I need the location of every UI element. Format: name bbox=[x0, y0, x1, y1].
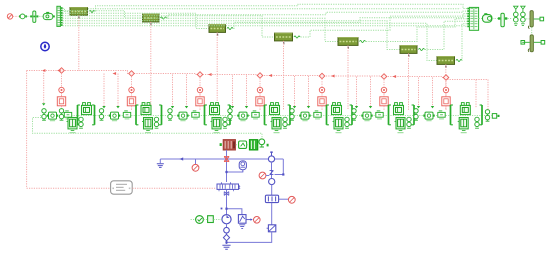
exhaust valve V5 bbox=[318, 97, 326, 106]
wire: crank to accessory drive bbox=[33, 118, 263, 139]
wire: runner line L1 outlet bbox=[96, 4, 470, 11]
shaft gauge G6a bbox=[352, 109, 356, 121]
wire: bus drop bbox=[186, 75, 188, 107]
wire: valve V5 to cylinder bbox=[321, 106, 323, 110]
rotary coupling R1 bbox=[20, 14, 25, 19]
wire: control line left bbox=[27, 187, 111, 189]
pressure gauge PT3 bbox=[288, 196, 295, 203]
tank T1 bbox=[157, 164, 164, 168]
wire: valve V4 to cylinder bbox=[259, 106, 261, 110]
wire: control line right bbox=[132, 187, 216, 189]
wire: left return riser bbox=[26, 71, 28, 189]
bracket cylinder 4 left bbox=[265, 105, 267, 125]
wire: valve V6 to cylinder bbox=[383, 106, 385, 110]
accumulator AC1 bbox=[239, 161, 246, 172]
crank throw E2b bbox=[123, 111, 130, 120]
pipe TL5 bbox=[338, 38, 358, 46]
cylinder head block 4 bbox=[270, 103, 280, 115]
wire: pipe TL2 thermal riser bbox=[150, 22, 152, 110]
cylinder port gauge G1 bbox=[59, 109, 63, 121]
tank T2 bbox=[239, 225, 245, 229]
pipe TL5 index label bbox=[348, 47, 349, 49]
crank throw E5a bbox=[299, 112, 310, 121]
con-rod bearings cylinder 7 bbox=[475, 117, 479, 128]
wire: bus drop bbox=[103, 74, 105, 107]
wire: pipe TL1 thermal riser bbox=[78, 15, 80, 71]
directional valve DV1 bbox=[217, 182, 240, 191]
cylinder head block 5 bbox=[332, 103, 342, 115]
wave symbol W6 bbox=[419, 48, 425, 50]
pump speed sensor green bbox=[196, 216, 204, 224]
wire: assembly drop 1 bbox=[61, 73, 63, 96]
wave symbol W5 bbox=[360, 40, 366, 42]
cylinder head block 1 bbox=[82, 103, 92, 115]
intake plenum manifold U1 bbox=[57, 6, 61, 26]
wire: manifold to turbine bbox=[479, 18, 482, 20]
wire: runner line L3 inlet bbox=[63, 13, 209, 28]
shaft gauge G3a bbox=[168, 109, 172, 121]
prime mover M1 bbox=[7, 14, 12, 19]
wire: pipe TL4 thermal riser bbox=[283, 41, 285, 110]
supply circle element CE2 bbox=[269, 179, 275, 185]
header arrow bbox=[179, 157, 183, 160]
wire: bus tail riser B bbox=[487, 80, 489, 111]
crank throw E3a bbox=[177, 112, 188, 121]
signal function box FB1 bbox=[111, 181, 133, 194]
pump drive coupler tick bbox=[220, 143, 222, 146]
end shaft gauge G8 bbox=[485, 110, 489, 122]
wire: runner line L4 inlet bbox=[63, 16, 275, 37]
exhaust valve V3 bbox=[196, 97, 204, 106]
wire: runner line L1 secondary outlet bbox=[88, 8, 460, 10]
pressure gauge PT2 bbox=[259, 172, 266, 179]
wire: bus drop bbox=[370, 77, 372, 107]
wire: pipe TL3 thermal riser bbox=[216, 32, 218, 110]
thermal node X1 bbox=[224, 157, 229, 162]
pipe TL1 bbox=[70, 8, 88, 16]
wire: assembly drop 5 bbox=[321, 79, 323, 96]
shaft gauge G7a bbox=[414, 109, 418, 121]
crank throw E5b bbox=[314, 111, 321, 120]
crank angle sensor G0 bbox=[42, 109, 46, 121]
crank throw E6b bbox=[376, 111, 383, 120]
pipe TL3 index label bbox=[217, 34, 218, 36]
wire: shaft node to sensors bbox=[508, 18, 512, 20]
rotary inertia J1 bbox=[530, 11, 533, 27]
junction diamond D2 bbox=[129, 71, 135, 77]
wire: bus drop bbox=[308, 76, 310, 107]
pump drive function block bbox=[208, 216, 214, 223]
exhaust orifice O7 bbox=[443, 87, 448, 92]
check valve CV1 bbox=[270, 171, 274, 175]
cylinder head block 6 bbox=[394, 103, 404, 115]
bracket cylinder 7 left bbox=[451, 105, 453, 125]
crank throw E3b bbox=[192, 111, 199, 120]
exhaust orifice O4 bbox=[257, 87, 262, 92]
crank throw E7a bbox=[423, 112, 434, 121]
wire: bus drop bbox=[294, 76, 296, 107]
junction diamond JD1 bbox=[223, 234, 229, 240]
leak bowtie LB1 bbox=[224, 192, 229, 196]
wire: runner line L6 inlet bbox=[63, 21, 400, 50]
exhaust valve V4 bbox=[256, 97, 264, 106]
bracket cylinder 3 left bbox=[205, 105, 207, 125]
con-rod bearings cylinder 1 bbox=[79, 117, 83, 128]
wire: relief branch RV1 bbox=[227, 209, 242, 215]
junction diamond D1 bbox=[59, 68, 65, 74]
main pump PU1 bbox=[222, 215, 231, 224]
wire: to relief valve RV2 bbox=[271, 185, 273, 195]
wire: runner line L7 inlet bbox=[63, 23, 437, 60]
con-rod bearings cylinder 4 bbox=[283, 117, 287, 128]
wire: runner line L1 inlet bbox=[63, 8, 70, 11]
wave symbol W2 bbox=[161, 17, 167, 19]
pipe TL6 bbox=[400, 46, 417, 54]
wire: runner line L2 inlet bbox=[63, 11, 143, 18]
crank throw E4b bbox=[252, 111, 259, 120]
compressor P1 bbox=[43, 13, 53, 19]
crank throw E2a bbox=[109, 112, 120, 121]
wire: valve V1 to cylinder bbox=[61, 106, 63, 110]
wire: assembly drop 4 bbox=[259, 78, 261, 96]
drive end tick bbox=[267, 144, 269, 147]
wire: thermal bus main bbox=[27, 71, 488, 80]
wave symbol W1 bbox=[89, 10, 95, 12]
wire: pipe TL5 thermal riser bbox=[347, 45, 349, 110]
wire: bus drop bbox=[246, 76, 248, 107]
wire: pump to sump bbox=[226, 224, 228, 244]
bracket cylinder 5 left bbox=[327, 105, 329, 125]
crank throw E6a bbox=[361, 112, 372, 121]
wire: M1 to coupling bbox=[13, 15, 19, 17]
piston block cylinder 1 bbox=[67, 118, 78, 134]
rotary shaft node N2 bbox=[501, 13, 504, 27]
pipe TL7 bbox=[437, 57, 455, 65]
crank throw E4a bbox=[237, 112, 248, 121]
wire: cranktrain axis bbox=[40, 115, 497, 117]
wire: runner line L7 outlet bbox=[462, 24, 469, 61]
con-rod bearings cylinder 5 bbox=[345, 117, 349, 128]
wire: runner line L2 outlet bbox=[167, 11, 469, 18]
wire: valve V2 to cylinder bbox=[131, 106, 133, 110]
wire: valve to pump leg bbox=[226, 189, 228, 214]
piston block cylinder 4 bbox=[271, 118, 282, 134]
con-rod bearings cylinder 6 bbox=[407, 117, 411, 128]
bracket cylinder 2 left bbox=[136, 105, 138, 125]
wire: bus drop bbox=[232, 76, 234, 107]
wire: header left drop bbox=[159, 159, 161, 163]
gear reducer GR1 bbox=[239, 141, 247, 148]
wire: bus drop bbox=[356, 77, 358, 107]
exhaust valve V6 bbox=[380, 97, 388, 106]
cylinder head block 7 bbox=[460, 103, 470, 115]
wire: filter to sump line bbox=[227, 232, 272, 243]
wire: assembly drop 3 bbox=[199, 77, 201, 96]
exhaust orifice O1 bbox=[59, 87, 64, 92]
piston block cylinder 7 bbox=[458, 118, 469, 134]
wire: pipe TL6 thermal riser bbox=[408, 53, 410, 110]
cylinder head block 3 bbox=[210, 103, 220, 115]
wire: bus drop bbox=[117, 74, 119, 107]
wire: runner line L5 outlet bbox=[366, 19, 469, 42]
speed sensor pair S1 bbox=[514, 6, 518, 9]
relief valve RV1 bbox=[238, 215, 252, 224]
wire: coupling to shaft bbox=[27, 15, 30, 17]
bracket cylinder 1 right bbox=[92, 105, 94, 125]
wire: HX1 to gearbox bbox=[236, 144, 238, 146]
piston block cylinder 6 bbox=[395, 118, 406, 134]
bracket cylinder 4 right bbox=[288, 105, 290, 125]
pressure gauge PT1 bbox=[192, 164, 199, 171]
exhaust orifice O6 bbox=[381, 87, 386, 92]
con-rod bearings cylinder 3 bbox=[223, 117, 227, 128]
junction diamond D4 bbox=[257, 73, 263, 79]
bracket cylinder 6 right bbox=[412, 105, 414, 125]
wave symbol W3 bbox=[227, 27, 233, 29]
bracket cylinder 6 left bbox=[389, 105, 391, 125]
wire: valve V3 to cylinder bbox=[199, 106, 201, 110]
wire: valve V7 to cylinder bbox=[445, 106, 447, 110]
shaft gauge G5a bbox=[290, 109, 294, 121]
wave symbol W4 bbox=[294, 36, 300, 38]
wire: assembly drop 2 bbox=[131, 76, 133, 96]
pipe TL3 bbox=[209, 25, 226, 33]
pipe TL1 index label bbox=[78, 17, 79, 19]
wire: accumulator branch bbox=[227, 171, 243, 172]
pump drive motor PM1 bbox=[249, 140, 257, 150]
turbine P2 bbox=[483, 15, 492, 23]
exhaust collector manifold U2 bbox=[469, 7, 478, 30]
supply circle element CE1 bbox=[268, 156, 274, 162]
wire: supply header bbox=[160, 158, 283, 160]
wire: runner line L3 outlet bbox=[234, 14, 470, 29]
wire: bus arm to crank input bbox=[43, 71, 45, 104]
junction diamond D3 bbox=[197, 72, 203, 78]
exhaust valve V2 bbox=[127, 97, 135, 106]
bracket cylinder 5 right bbox=[350, 105, 352, 125]
wire: HX1 drop bbox=[226, 150, 228, 182]
wire: bus drop bbox=[432, 78, 434, 107]
wave symbol W7 bbox=[456, 59, 462, 61]
piston block cylinder 3 bbox=[211, 118, 222, 134]
wire: runner line L5 inlet bbox=[63, 18, 338, 41]
exhaust orifice O3 bbox=[197, 87, 202, 92]
exhaust valve V1 bbox=[57, 97, 65, 106]
junction diamond D6 bbox=[381, 74, 387, 80]
inlet elem E1 bbox=[64, 111, 71, 120]
pipe TL4 index label bbox=[283, 42, 284, 44]
con-rod bearings cylinder 2 bbox=[154, 117, 158, 128]
wire: bus drop bbox=[418, 78, 420, 107]
flow circle FC1 bbox=[224, 227, 230, 233]
end load E8 bbox=[492, 114, 496, 119]
wire: assembly drop 6 bbox=[383, 79, 385, 96]
shaft gauge G2a bbox=[99, 109, 103, 121]
filter FL1 bbox=[267, 225, 276, 232]
fluid properties icon F1 bbox=[41, 42, 49, 50]
wire: assembly drop 7 bbox=[445, 80, 447, 96]
wire: pipe TL7 thermal riser bbox=[445, 64, 447, 110]
wire: runner line L8 bbox=[63, 25, 469, 28]
crank node E0 bbox=[47, 112, 58, 121]
junction diamond D7 bbox=[443, 75, 449, 81]
junction diamond D5 bbox=[319, 73, 325, 79]
wire: check drop bbox=[271, 162, 273, 178]
shaft gauge G4a bbox=[228, 109, 232, 121]
rotary shaft node N1 bbox=[33, 11, 36, 22]
wire: bus tail riser A bbox=[475, 80, 477, 109]
bracket cylinder 7 right bbox=[480, 105, 482, 125]
wire: bypass loop bbox=[275, 159, 284, 175]
bracket cylinder 3 right bbox=[228, 105, 230, 125]
wire: sensors to inertia J1 bbox=[526, 18, 529, 20]
crank throw E7b bbox=[438, 111, 445, 120]
wire: inertia J1 to inertia J2 bbox=[531, 27, 533, 34]
wire: sensor dashes bbox=[191, 219, 196, 221]
exhaust orifice O2 bbox=[129, 87, 134, 92]
cylinder head block 2 bbox=[141, 103, 151, 115]
bus flow arrows bbox=[57, 69, 61, 72]
rotary inertia J2 bbox=[530, 35, 533, 52]
pressure gauge PT4 bbox=[253, 217, 260, 224]
piston block cylinder 2 bbox=[142, 118, 153, 134]
exhaust orifice O5 bbox=[319, 87, 324, 92]
wire: RV2 to filter bbox=[271, 203, 273, 225]
wire: runner line L4 outlet bbox=[301, 16, 470, 37]
heat exchanger HX1 bbox=[223, 140, 235, 150]
piston block cylinder 5 bbox=[333, 118, 344, 134]
bracket cylinder 1 left bbox=[78, 105, 80, 125]
pipe TL2 bbox=[143, 14, 160, 22]
pipe TL6 index label bbox=[408, 55, 409, 57]
wire: shaft to compressor bbox=[39, 15, 42, 17]
pipe TL4 bbox=[275, 33, 293, 41]
wire: RV2 gauge tap bbox=[279, 198, 289, 200]
pipe TL2 index label bbox=[150, 23, 151, 25]
pipe TL7 index label bbox=[445, 66, 446, 68]
wire: bus drop bbox=[172, 75, 174, 107]
relief valve RV2 bbox=[265, 195, 278, 202]
wire: turbine to shaft node bbox=[492, 18, 499, 20]
tank T3 main sump bbox=[222, 245, 230, 249]
exhaust valve V7 bbox=[442, 97, 450, 106]
wire: runner line L6 outlet bbox=[425, 21, 469, 49]
bracket cylinder 2 right bbox=[159, 105, 161, 125]
wire: gauge tap PT1 bbox=[195, 159, 197, 164]
wire: gearbox to motor bbox=[247, 144, 249, 146]
drive speed gauge G9 bbox=[259, 139, 265, 147]
